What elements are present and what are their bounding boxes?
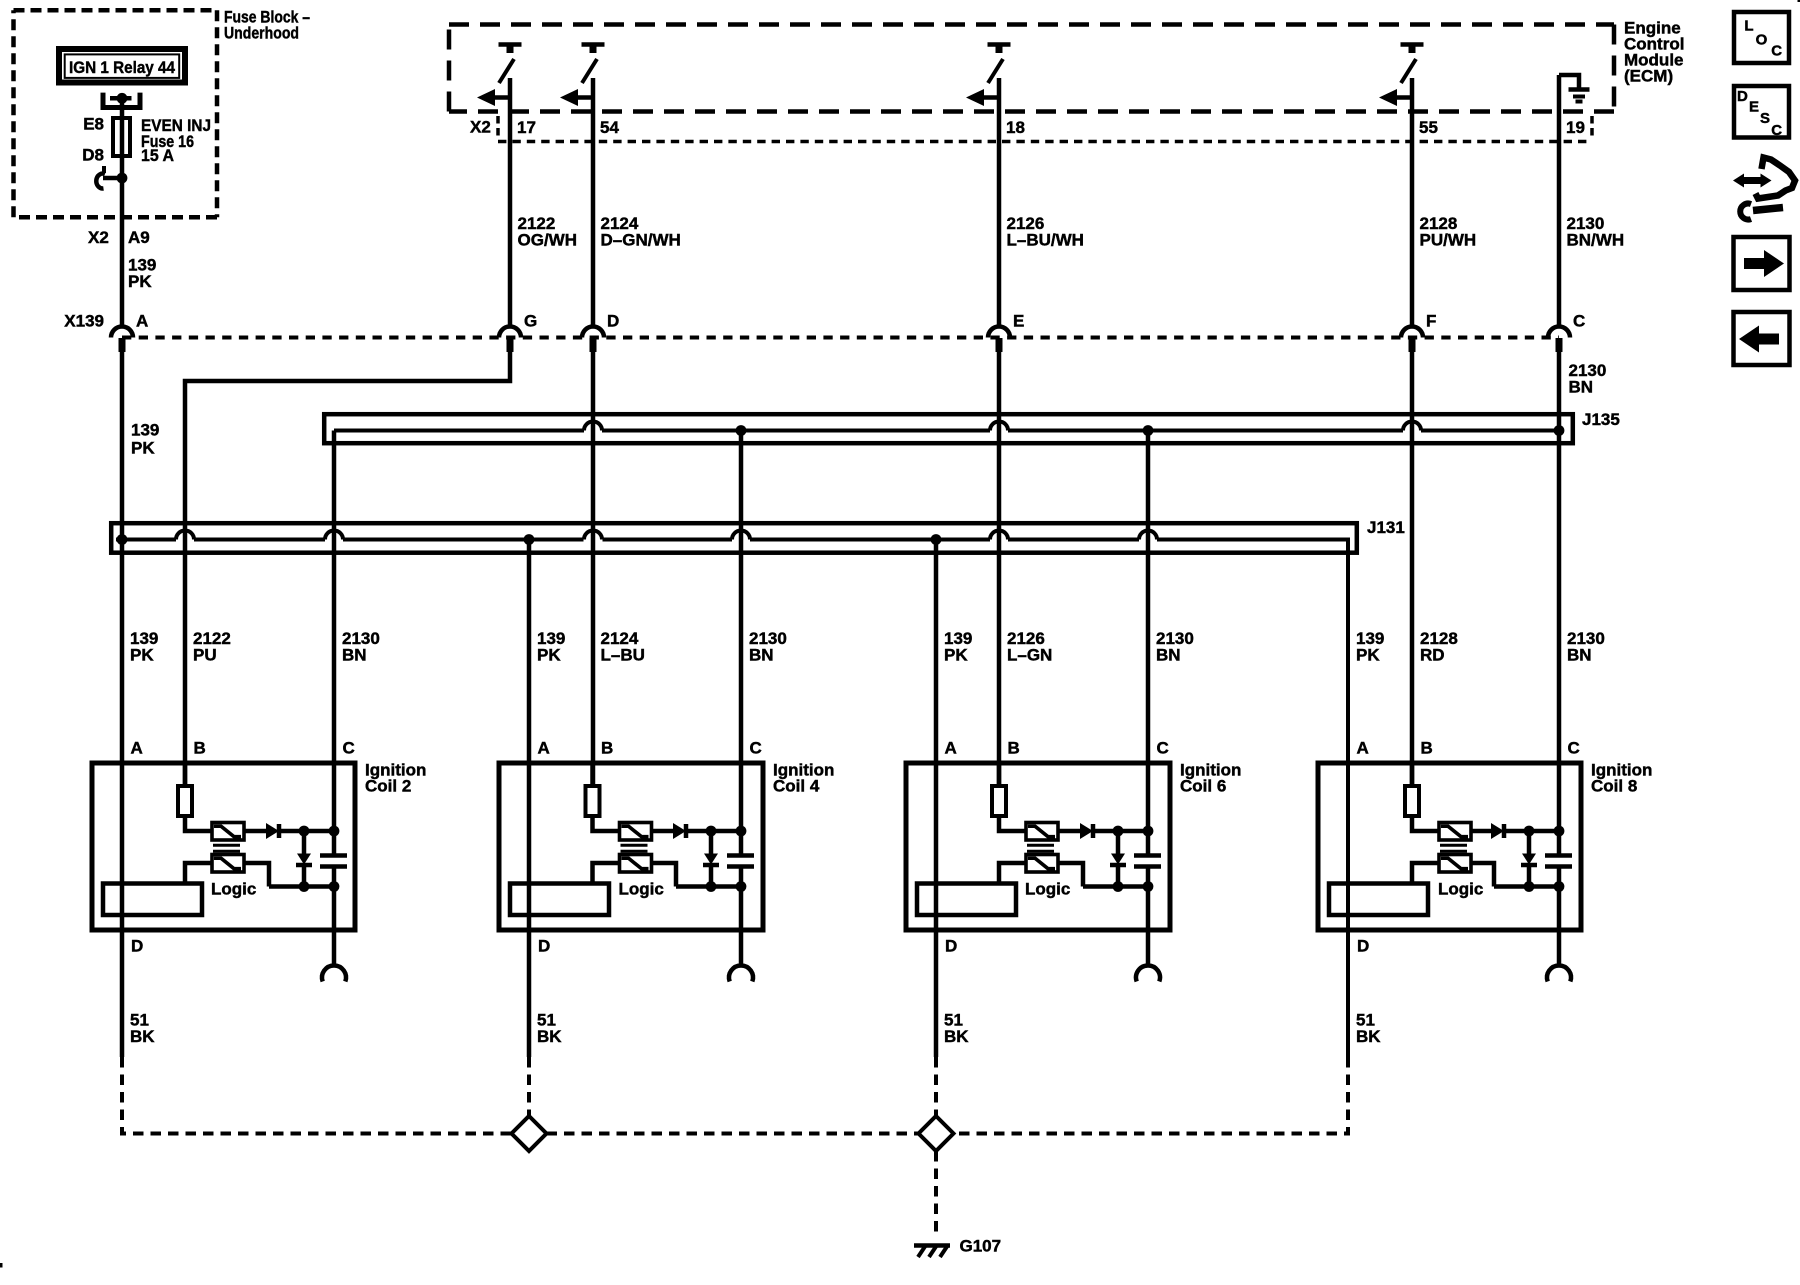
svg-text:B: B bbox=[601, 739, 613, 758]
svg-text:E: E bbox=[1013, 312, 1024, 331]
svg-text:PK: PK bbox=[537, 646, 561, 665]
svg-text:PK: PK bbox=[130, 646, 154, 665]
svg-text:BN: BN bbox=[1567, 646, 1592, 665]
svg-text:OG/WH: OG/WH bbox=[518, 231, 578, 250]
svg-text:B: B bbox=[1421, 739, 1433, 758]
svg-text:54: 54 bbox=[600, 118, 619, 137]
svg-text:139: 139 bbox=[131, 421, 159, 440]
svg-text:Coil 4: Coil 4 bbox=[773, 777, 820, 796]
svg-text:J135: J135 bbox=[1582, 410, 1620, 429]
svg-text:C: C bbox=[750, 739, 762, 758]
svg-text:J131: J131 bbox=[1367, 518, 1405, 537]
svg-text:BK: BK bbox=[130, 1027, 155, 1046]
svg-text:55: 55 bbox=[1419, 118, 1438, 137]
svg-text:E: E bbox=[1749, 99, 1759, 116]
svg-text:BN: BN bbox=[749, 646, 774, 665]
svg-text:PK: PK bbox=[1356, 646, 1380, 665]
svg-text:C: C bbox=[1771, 43, 1782, 60]
svg-text:BN: BN bbox=[1156, 646, 1181, 665]
svg-text:D: D bbox=[945, 937, 957, 956]
svg-text:C: C bbox=[1573, 312, 1585, 331]
svg-text:IGN 1 Relay 44: IGN 1 Relay 44 bbox=[69, 58, 175, 77]
svg-text:G: G bbox=[524, 312, 537, 331]
svg-text:D: D bbox=[1737, 88, 1748, 105]
svg-text:Logic: Logic bbox=[619, 880, 664, 899]
svg-text:17: 17 bbox=[517, 118, 536, 137]
svg-text:D–GN/WH: D–GN/WH bbox=[601, 231, 681, 250]
svg-text:D: D bbox=[131, 937, 143, 956]
svg-text:X2: X2 bbox=[88, 228, 109, 247]
svg-text:L–GN: L–GN bbox=[1007, 646, 1052, 665]
svg-text:O: O bbox=[1756, 32, 1768, 49]
svg-text:S: S bbox=[1760, 110, 1770, 127]
svg-text:L–BU: L–BU bbox=[601, 646, 645, 665]
svg-text:X139: X139 bbox=[64, 312, 104, 331]
svg-text:BN/WH: BN/WH bbox=[1567, 231, 1625, 250]
svg-text:C: C bbox=[1568, 739, 1580, 758]
svg-text:A9: A9 bbox=[128, 228, 150, 247]
svg-text:F: F bbox=[1426, 312, 1436, 331]
svg-text:C: C bbox=[1771, 122, 1782, 139]
svg-text:A: A bbox=[538, 739, 550, 758]
svg-text:BK: BK bbox=[1356, 1027, 1381, 1046]
svg-text:D: D bbox=[1357, 937, 1369, 956]
svg-text:C: C bbox=[343, 739, 355, 758]
svg-text:Logic: Logic bbox=[1438, 880, 1483, 899]
svg-text:BN: BN bbox=[342, 646, 367, 665]
svg-text:D8: D8 bbox=[82, 145, 104, 164]
svg-text:Logic: Logic bbox=[211, 880, 256, 899]
svg-text:19: 19 bbox=[1566, 118, 1585, 137]
svg-text:D: D bbox=[538, 937, 550, 956]
svg-text:A: A bbox=[945, 739, 957, 758]
svg-text:X2: X2 bbox=[470, 118, 491, 137]
svg-text:PK: PK bbox=[944, 646, 968, 665]
svg-text:PK: PK bbox=[131, 439, 155, 458]
svg-text:Logic: Logic bbox=[1025, 880, 1070, 899]
svg-text:B: B bbox=[194, 739, 206, 758]
svg-text:BK: BK bbox=[537, 1027, 562, 1046]
svg-text:(ECM): (ECM) bbox=[1624, 67, 1673, 86]
svg-text:PU: PU bbox=[193, 646, 217, 665]
svg-text:C: C bbox=[1157, 739, 1169, 758]
svg-text:PU/WH: PU/WH bbox=[1420, 231, 1477, 250]
svg-text:L: L bbox=[1744, 18, 1753, 35]
svg-text:PK: PK bbox=[128, 272, 152, 291]
svg-text:BK: BK bbox=[944, 1027, 969, 1046]
svg-text:18: 18 bbox=[1006, 118, 1025, 137]
svg-text:BN: BN bbox=[1569, 378, 1594, 397]
svg-text:A: A bbox=[136, 312, 148, 331]
svg-text:B: B bbox=[1008, 739, 1020, 758]
svg-text:Coil 8: Coil 8 bbox=[1591, 777, 1637, 796]
svg-text:RD: RD bbox=[1420, 646, 1445, 665]
svg-text:15 A: 15 A bbox=[141, 146, 174, 165]
svg-text:Coil 6: Coil 6 bbox=[1180, 777, 1226, 796]
svg-text:Underhood: Underhood bbox=[224, 24, 299, 43]
svg-text:D: D bbox=[607, 312, 619, 331]
svg-text:A: A bbox=[131, 739, 143, 758]
svg-text:Coil 2: Coil 2 bbox=[365, 777, 411, 796]
svg-text:G107: G107 bbox=[960, 1237, 1002, 1256]
svg-text:L–BU/WH: L–BU/WH bbox=[1007, 231, 1084, 250]
svg-text:E8: E8 bbox=[83, 114, 104, 133]
svg-text:A: A bbox=[1357, 739, 1369, 758]
